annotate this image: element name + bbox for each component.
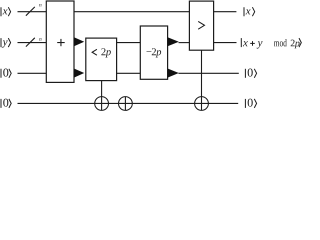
node |x> input label [1, 7, 11, 16]
wire 2 output segment [214, 42, 237, 44]
node |0> input label wire 4 [1, 99, 11, 108]
wire 1 input segment [18, 11, 47, 13]
control line U4 to X3 [201, 50, 203, 110]
bus width label n wire 2 [39, 38, 41, 41]
comparator box U4 ">" [189, 1, 213, 50]
wire 3 input segment [18, 72, 47, 74]
node |0> output label wire 4 [245, 99, 256, 108]
node |x> output label [244, 7, 255, 16]
node |y> input label [1, 38, 11, 48]
bus width label n wire 1 [39, 4, 41, 7]
wire 3 segment U2-U3 [117, 72, 141, 74]
CNOT target X2 [119, 97, 133, 111]
wire 2 input segment [18, 42, 47, 44]
arrow triangle T4 wire 3 [168, 69, 179, 78]
wire 2 segment T3-U4 [179, 42, 190, 44]
CNOT target X1 [95, 97, 109, 111]
node |0> output label wire 3 [245, 69, 256, 78]
arrow triangle T3 wire 2 [168, 37, 179, 46]
comparator box U2 "< 2p" [86, 38, 117, 81]
arrow triangle T2 wire 3 [74, 69, 84, 78]
adder box U1 "+" [46, 1, 74, 82]
node |x + y mod 2p> output label [241, 38, 301, 48]
subtractor box U3 "-2p" [140, 26, 167, 79]
wire 3 segment T4-output [179, 72, 239, 74]
CNOT target X3 [195, 97, 209, 111]
control line U2 to X1 [101, 81, 103, 111]
wire 2 segment U2-U3 [117, 42, 141, 44]
wire 4 segment [18, 102, 239, 104]
arrow triangle T1 wire 2 [74, 37, 84, 46]
wire 1 output segment [214, 11, 237, 13]
bus slash wire 1 [26, 7, 35, 16]
wire 1 segment U1-U4 [74, 11, 190, 13]
bus slash wire 2 [26, 38, 35, 47]
node |0> input label wire 3 [1, 69, 11, 78]
